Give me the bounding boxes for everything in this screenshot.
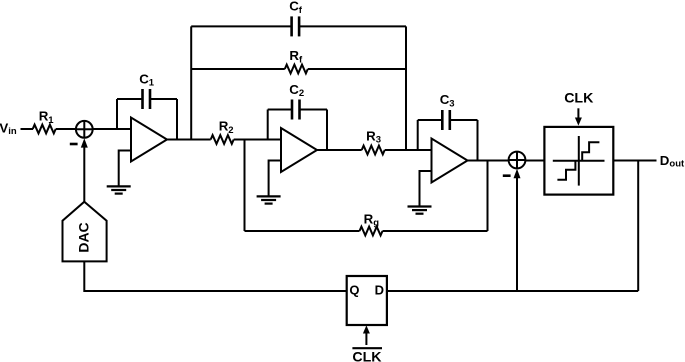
- capacitor C3: [418, 110, 478, 161]
- wire Vin to R1: [21, 128, 34, 130]
- op-amp U3: [432, 139, 468, 183]
- wire U1 output to R2: [167, 139, 211, 141]
- ground U3: [408, 207, 432, 214]
- CLK label (quantizer clock): [564, 90, 594, 106]
- wire junction down from Cf and Rf (right vertical): [405, 26, 407, 150]
- svg-text:D: D: [375, 283, 384, 298]
- resistor R2: [211, 135, 234, 144]
- resistor Rg label: [364, 212, 380, 229]
- node Dout label: [660, 153, 685, 170]
- svg-text:Dout: Dout: [660, 153, 685, 170]
- capacitor C1 label: [139, 71, 155, 88]
- resistor Rg: [245, 227, 488, 236]
- wire U3 non-inverting input to ground: [420, 171, 432, 207]
- flip-flop D label: [375, 283, 384, 298]
- CLKbar overline: [352, 347, 382, 349]
- wire S2 to quantizer: [525, 160, 544, 162]
- CLKbar label with overline: [352, 349, 382, 362]
- resistor R3: [362, 146, 385, 155]
- wire R2 to op-amp U2 inverting input: [234, 139, 281, 141]
- capacitor Cf: [191, 16, 406, 36]
- wire R3 to op-amp U3 inverting input: [385, 149, 432, 151]
- wire S1 to op-amp U1 inverting input: [93, 128, 131, 130]
- wire U3 output to summing node S2: [468, 160, 509, 162]
- wire U1 non-inverting input to ground: [119, 151, 131, 187]
- resistor R1: [33, 125, 56, 134]
- summing node S2: [509, 152, 526, 169]
- node Vin label: [0, 121, 17, 138]
- svg-text:R3: R3: [366, 128, 381, 145]
- wire DAC bottom to flip-flop Q: [84, 261, 346, 291]
- summing node S1: [76, 121, 93, 138]
- wire up to S2 with arrowhead: [514, 169, 521, 291]
- resistor R1 label: [39, 109, 55, 126]
- svg-text:Vin: Vin: [0, 121, 17, 138]
- wire R2 node down to Rg (left vertical): [244, 140, 246, 232]
- CLK arrow into quantizer: [575, 108, 582, 125]
- resistor Rf label: [289, 48, 303, 65]
- resistor R3 label: [366, 128, 381, 145]
- svg-text:C3: C3: [440, 92, 455, 109]
- svg-text:C2: C2: [289, 82, 304, 99]
- wire Dout feedback vertical: [637, 161, 639, 292]
- resistor R2 label: [219, 119, 234, 136]
- flip-flop box: [347, 276, 387, 325]
- svg-text:Rg: Rg: [364, 212, 380, 229]
- svg-text:CLK: CLK: [352, 349, 382, 362]
- capacitor Cf label: [289, 0, 303, 16]
- capacitor C3 label: [440, 92, 455, 109]
- svg-text:CLK: CLK: [564, 90, 594, 106]
- wire junction up to Cf and Rf (left vertical): [190, 26, 192, 139]
- svg-text:C1: C1: [139, 71, 155, 88]
- wire R1 to summing node S1: [56, 128, 76, 130]
- DAC label: [76, 222, 92, 252]
- capacitor C2: [268, 100, 327, 151]
- svg-text:Rf: Rf: [289, 48, 303, 65]
- wire Rg right vertical up to U3 output: [487, 161, 489, 232]
- flip-flop Q label: [349, 283, 359, 298]
- minus sign at S2: [503, 174, 511, 177]
- svg-text:Q: Q: [349, 283, 359, 298]
- ground U1: [107, 186, 131, 193]
- wire U2 non-inverting input to ground: [269, 161, 281, 197]
- wire flip-flop D input from feedback: [387, 290, 638, 292]
- op-amp U2: [281, 128, 317, 172]
- quantizer block U4: [544, 127, 613, 195]
- op-amp U1: [131, 118, 167, 162]
- wire quantizer output to Dout: [613, 160, 656, 162]
- DAC block: [63, 202, 107, 262]
- svg-text:DAC: DAC: [76, 222, 92, 252]
- CLKbar arrow into flip-flop: [363, 325, 370, 345]
- svg-text:Cf: Cf: [289, 0, 303, 16]
- svg-text:R1: R1: [39, 109, 55, 126]
- wire DAC to S1 with arrowhead: [81, 138, 88, 202]
- capacitor C1: [117, 89, 177, 140]
- ground U2: [257, 196, 281, 203]
- svg-text:R2: R2: [219, 119, 234, 136]
- minus sign at S1: [70, 143, 78, 146]
- capacitor C2 label: [289, 82, 304, 99]
- quantizer staircase symbol: [553, 136, 605, 186]
- wire U2 output to R3: [317, 149, 362, 151]
- resistor Rf: [191, 65, 406, 74]
